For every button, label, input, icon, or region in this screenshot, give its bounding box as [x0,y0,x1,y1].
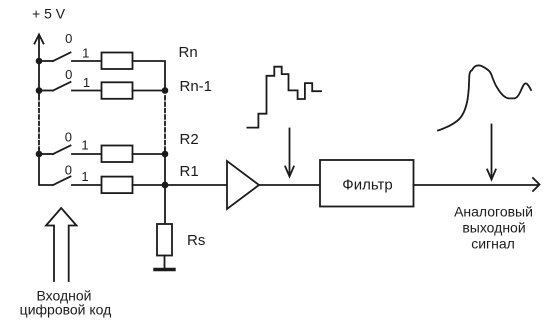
wire junction to amplifier [165,184,227,186]
smooth analog waveform [438,65,531,130]
node: junction row1 left [36,58,43,65]
filter block [320,160,414,207]
wire row1 to resistor [72,60,102,62]
svg-text:1: 1 [81,169,88,184]
svg-text:0: 0 [65,163,72,178]
svg-text:Rn-1: Rn-1 [180,78,213,95]
svg-text:0: 0 [65,31,72,46]
switch SW1 (bit 1) [53,177,71,186]
svg-text:Аналоговый: Аналоговый [454,204,533,220]
resistor R2 [102,146,133,163]
op-amp buffer U1 [227,161,259,209]
wire Rs to ground [164,256,166,269]
wire: left rail dashed segment [38,96,40,149]
arrow: staircase to wire [285,129,294,177]
svg-text:+ 5 V: + 5 V [32,6,66,22]
svg-text:выходной: выходной [462,220,525,236]
wire row4 resistor to junction [133,184,166,186]
node: summing junction [162,182,169,189]
wire: right rail dashed segment [164,96,166,149]
svg-text:1: 1 [81,138,88,153]
svg-text:R2: R2 [180,131,199,148]
arrow: input digital code (hollow up arrow) [46,208,77,281]
ground [155,268,174,271]
svg-text:Rn: Rn [179,44,198,61]
resistor Rn-1 [102,82,133,99]
arrow: analog waveform to output wire [487,125,496,180]
svg-text:1: 1 [82,46,89,61]
switch SW2 (bit 2) [39,146,71,155]
svg-text:Rs: Rs [187,232,205,249]
svg-text:Фильтр: Фильтр [342,177,392,194]
wire row1 resistor to right rail [133,61,166,91]
resistor Rn [102,53,133,70]
wire: right rail solid rows 3-4 [164,149,166,185]
svg-text:1: 1 [83,75,90,90]
node: junction row3 left [36,151,43,158]
node: junction row2 left [36,87,43,94]
wire row3 resistor to right rail [133,153,166,155]
svg-text:0: 0 [65,130,72,145]
svg-text:сигнал: сигнал [471,236,515,252]
svg-text:R1: R1 [180,163,199,180]
wire filter to output with arrow [414,178,540,191]
wire row4 to resistor [72,184,102,186]
wire amplifier to filter [259,184,320,186]
svg-text:0: 0 [65,67,72,82]
node: junction row2 right [162,87,169,94]
svg-text:цифровой код: цифровой код [20,302,112,318]
wire row2 resistor to right rail [133,90,166,92]
wire row3 to resistor [72,153,102,155]
switch SWn-1 (bit n-1) [39,82,71,91]
wire: left rail solid segment rows 3-4 [39,149,53,185]
switch SWn (bit n) [39,53,71,62]
staircase waveform (DAC output) [247,67,321,128]
node: junction row3 right [162,151,169,158]
wire junction to Rs [164,185,166,224]
wire: left rail solid segment rows 1-2 [38,61,40,95]
wire: supply rail arrow up [35,35,44,62]
resistor R1 [102,177,133,194]
resistor Rs [157,224,172,256]
wire row2 to resistor [72,90,102,92]
